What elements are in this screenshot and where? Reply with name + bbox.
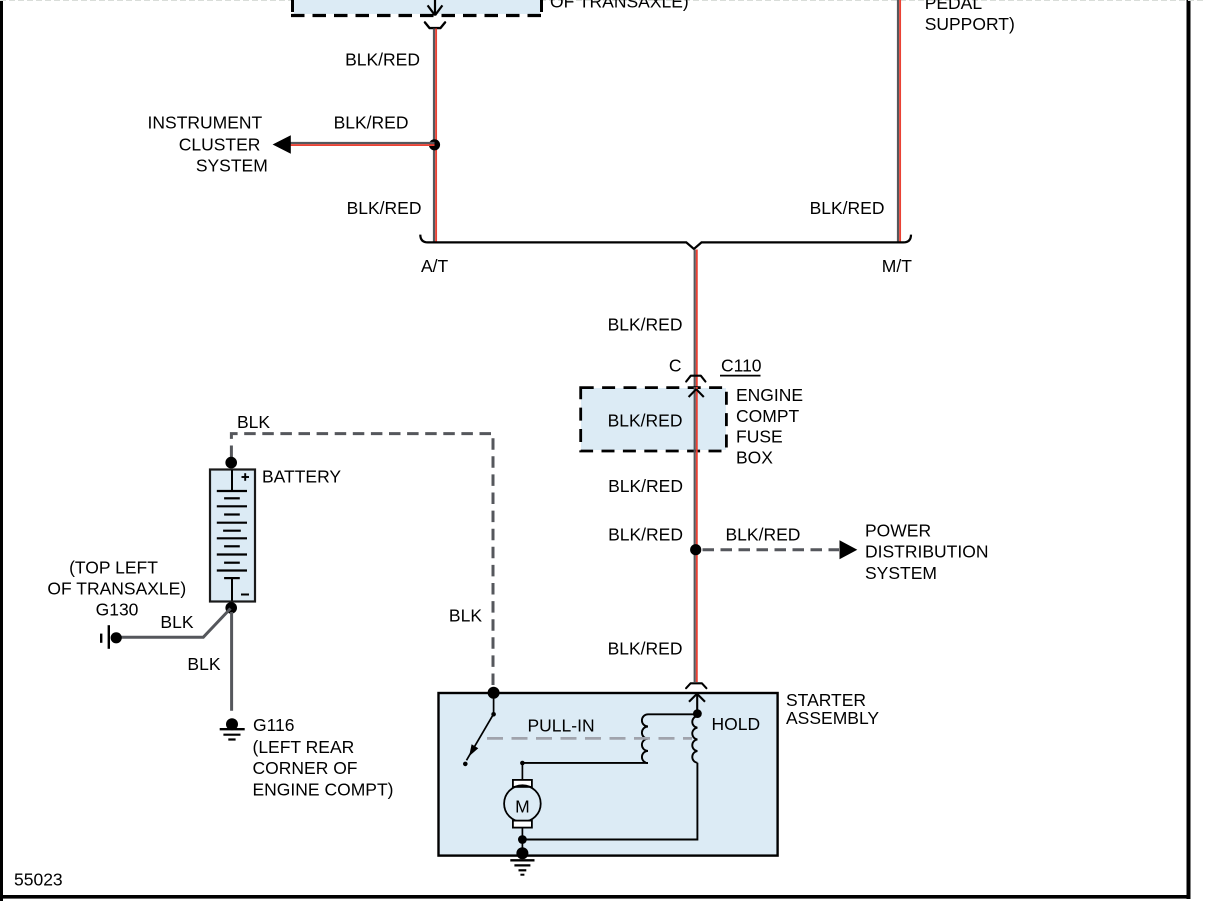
svg-text:BLK/RED: BLK/RED bbox=[608, 411, 683, 431]
mechanical link (dashed) bbox=[487, 737, 692, 740]
svg-text:BLK/RED: BLK/RED bbox=[608, 315, 683, 335]
connector arrow (male, up) inside fuse box bbox=[689, 389, 704, 397]
node junction dot on left wire bbox=[429, 139, 440, 150]
svg-text:BLK/RED: BLK/RED bbox=[608, 476, 683, 496]
starter assembly box bbox=[439, 693, 778, 856]
arrow to instrument cluster system bbox=[273, 135, 291, 154]
svg-text:BLK/RED: BLK/RED bbox=[608, 639, 683, 659]
svg-text:SUPPORT): SUPPORT) bbox=[925, 14, 1015, 34]
battery bbox=[210, 470, 255, 602]
label connector C110 bbox=[720, 356, 762, 376]
label INSTRUMENT CLUSTER SYSTEM bbox=[148, 112, 268, 175]
node dot motor/hold junction bbox=[518, 835, 527, 844]
motor M circle bbox=[504, 785, 541, 822]
svg-text:BLK/RED: BLK/RED bbox=[345, 50, 420, 70]
svg-text:ENGINE: ENGINE bbox=[736, 385, 803, 405]
svg-text:FUSE: FUSE bbox=[736, 426, 783, 446]
wire BLK battery to G130 bbox=[121, 609, 231, 638]
svg-text:(LEFT REAR: (LEFT REAR bbox=[253, 737, 355, 757]
ground symbol starter bbox=[510, 860, 534, 874]
wire motor stub top bbox=[521, 763, 523, 780]
wire BLK/RED right vertical (M/T branch) bbox=[898, 0, 900, 242]
arrow to power distribution system bbox=[840, 540, 858, 559]
svg-text:BOX: BOX bbox=[736, 447, 773, 467]
wire junction to pull-in coil bbox=[648, 713, 697, 715]
node battery negative dot bbox=[225, 602, 237, 614]
svg-text:OF TRANSAXLE): OF TRANSAXLE) bbox=[47, 579, 186, 599]
svg-text:CORNER OF: CORNER OF bbox=[253, 758, 358, 778]
svg-text:INSTRUMENT: INSTRUMENT bbox=[148, 112, 263, 132]
svg-text:G116: G116 bbox=[253, 715, 295, 735]
label PEDAL SUPPORT) bbox=[925, 0, 1015, 34]
engine compt fuse box (dashed) bbox=[581, 388, 727, 451]
svg-text:A/T: A/T bbox=[421, 256, 449, 276]
transaxle switch box (dashed, top) bbox=[291, 0, 543, 16]
svg-text:POWER: POWER bbox=[865, 521, 931, 541]
solenoid coil HOLD bbox=[692, 716, 697, 763]
ground stud G130 bbox=[101, 625, 122, 649]
svg-text:BLK/RED: BLK/RED bbox=[608, 525, 683, 545]
svg-text:SYSTEM: SYSTEM bbox=[865, 563, 937, 583]
svg-text:ASSEMBLY: ASSEMBLY bbox=[786, 708, 879, 728]
connector socket (female cup) below transaxle box bbox=[425, 22, 445, 28]
svg-text:COMPT: COMPT bbox=[736, 406, 800, 426]
svg-text:HOLD: HOLD bbox=[712, 714, 761, 734]
wire BLK/RED center (brace to C110) bbox=[695, 250, 697, 388]
wire BLK/RED left vertical (A/T branch) bbox=[434, 29, 436, 243]
wire BLK dashed (battery to starter switch) bbox=[231, 434, 493, 687]
connector arrow (male, down) at transaxle box bbox=[428, 0, 443, 15]
node junction dot (hold/pull-in split) bbox=[693, 709, 702, 718]
svg-text:BLK: BLK bbox=[187, 654, 220, 674]
ground G116 bbox=[220, 718, 245, 739]
svg-text:55023: 55023 bbox=[14, 869, 63, 889]
switch blade with arrowhead bbox=[467, 714, 494, 760]
svg-text:BLK: BLK bbox=[449, 606, 482, 626]
svg-text:BATTERY: BATTERY bbox=[262, 467, 341, 487]
wire BLK/RED (fuse box to starter) bbox=[695, 451, 697, 682]
label (TOP LEFT OF TRANSAXLE) G130 bbox=[47, 558, 186, 620]
node dot at starter ground bbox=[516, 847, 528, 859]
svg-text:BLK: BLK bbox=[237, 412, 270, 432]
node dot at starter box top (battery feed) bbox=[488, 687, 500, 699]
svg-text:BLK/RED: BLK/RED bbox=[334, 113, 409, 133]
node motor top dot bbox=[520, 761, 525, 766]
svg-text:STARTER: STARTER bbox=[786, 690, 866, 710]
svg-text:BLK/RED: BLK/RED bbox=[810, 198, 885, 218]
svg-text:CLUSTER: CLUSTER bbox=[179, 135, 261, 155]
connector socket (female cup) above fuse box bbox=[686, 376, 705, 382]
svg-text:(TOP LEFT: (TOP LEFT bbox=[69, 558, 158, 578]
switch pivot dot bbox=[491, 712, 496, 717]
wire BLK/RED horizontal to instrument cluster bbox=[289, 143, 435, 145]
wire hold coil down and across to motor bbox=[522, 763, 697, 840]
label G116 (LEFT REAR CORNER OF ENGINE COMPT) bbox=[253, 715, 394, 799]
svg-text:PEDAL: PEDAL bbox=[925, 0, 983, 13]
node junction dot to power distribution bbox=[690, 544, 701, 555]
svg-text:M/T: M/T bbox=[882, 256, 912, 276]
svg-text:C: C bbox=[669, 356, 682, 376]
brace merging A/T and M/T wires bbox=[420, 235, 911, 249]
wire pull-in coil to motor bbox=[522, 762, 648, 764]
svg-text:SYSTEM: SYSTEM bbox=[196, 155, 268, 175]
label POWER DISTRIBUTION SYSTEM bbox=[865, 521, 988, 583]
svg-text:BLK/RED: BLK/RED bbox=[726, 525, 801, 545]
svg-text:M: M bbox=[515, 796, 530, 816]
wire BLK battery to G116 bbox=[230, 612, 233, 711]
svg-text:PULL-IN: PULL-IN bbox=[528, 716, 595, 736]
svg-text:ENGINE COMPT): ENGINE COMPT) bbox=[253, 780, 394, 800]
wire BLK/RED dashed branch to power distribution bbox=[703, 548, 840, 551]
connector arrow (male, up) inside starter box bbox=[689, 694, 705, 714]
motor M brush top bbox=[513, 780, 532, 787]
switch contact dot bbox=[463, 762, 468, 767]
svg-text:DISTRIBUTION: DISTRIBUTION bbox=[865, 542, 988, 562]
motor M brush bottom bbox=[513, 821, 532, 828]
label ENGINE COMPT FUSE BOX bbox=[736, 385, 803, 468]
svg-text:C110: C110 bbox=[721, 356, 762, 376]
label STARTER ASSEMBLY bbox=[786, 690, 879, 728]
wire BLK/RED through fuse box bbox=[695, 387, 697, 451]
connector socket (female cup) above starter assembly bbox=[686, 683, 706, 688]
node battery positive dot bbox=[225, 457, 237, 469]
svg-text:OF TRANSAXLE): OF TRANSAXLE) bbox=[550, 0, 689, 12]
svg-text:G130: G130 bbox=[96, 600, 139, 620]
wire motor bottom stub bbox=[521, 828, 523, 853]
solenoid coil PULL-IN bbox=[642, 714, 648, 763]
svg-text:BLK/RED: BLK/RED bbox=[347, 198, 422, 218]
switch stub bbox=[493, 697, 495, 713]
svg-text:BLK: BLK bbox=[160, 612, 193, 632]
